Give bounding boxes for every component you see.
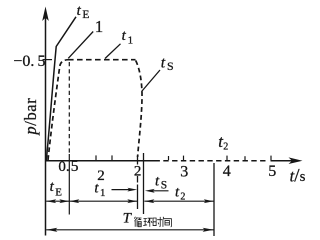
x tick 5: [270, 156, 272, 161]
solid evacuation curve tE: [46, 17, 76, 161]
svg-text:2: 2: [223, 142, 228, 153]
x tick 4: [226, 156, 228, 161]
svg-text:t: t: [161, 54, 166, 71]
extension line at t=0.5 crossing axis and solid below: [68, 154, 70, 215]
svg-text:p/bar: p/bar: [21, 98, 40, 136]
dimension t2 arrows: [144, 200, 213, 202]
svg-text:2: 2: [180, 191, 185, 202]
y-axis tick -0.5: [43, 59, 53, 61]
y-axis: [45, 12, 47, 236]
svg-text:S: S: [161, 180, 167, 192]
svg-text:−0. 5: −0. 5: [13, 53, 45, 70]
char shi: [153, 217, 162, 227]
svg-text:4: 4: [223, 163, 231, 180]
x tick 1: [95, 155, 97, 160]
extension line at t=0.5 dashed above axis: [68, 62, 70, 154]
x tick nub 4.5: [244, 156, 246, 160]
svg-text:5: 5: [71, 158, 79, 175]
leader to label 1: [68, 32, 93, 59]
svg-text:1: 1: [95, 17, 103, 36]
y-axis arrowhead: [42, 7, 49, 22]
extension line at t=2 below label: [137, 176, 139, 183]
char huan: [143, 218, 152, 227]
x tick 1.5: [111, 155, 113, 160]
leader to label t1: [105, 44, 121, 59]
svg-text:5: 5: [268, 163, 276, 180]
leader to label tS: [142, 70, 160, 92]
svg-text:E: E: [55, 186, 62, 198]
dashed curve rising edge: [48, 60, 68, 160]
char jian: [163, 217, 171, 227]
svg-text:s: s: [300, 169, 306, 185]
x tick 3: [183, 156, 185, 161]
x-axis solid part: [45, 160, 155, 162]
dimension tS left-pointing arrow: [152, 190, 169, 192]
extension line at t=2 tick through axis: [137, 156, 139, 165]
char xun: [134, 217, 141, 227]
dashed curve falling edge: [136, 61, 142, 158]
extension line right of t=2: [143, 153, 145, 214]
x-axis arrow shaft: [271, 160, 299, 162]
dimension tE arrows: [46, 200, 69, 202]
svg-text:1: 1: [100, 187, 106, 199]
svg-text:S: S: [167, 59, 174, 73]
dimension tS right-pointing arrow: [112, 189, 130, 191]
x-axis arrowhead: [289, 157, 303, 164]
chinese label xun huan shi jian (cycle time): [134, 217, 171, 227]
x-axis dashed part: [155, 160, 269, 162]
svg-text:E: E: [82, 9, 89, 21]
extension line at end of t2: [213, 163, 215, 236]
dimension t1 arrows: [69, 200, 137, 202]
svg-text:0.: 0.: [58, 159, 69, 175]
dashed curve plateau: [68, 59, 136, 61]
svg-text:2: 2: [134, 163, 142, 179]
dimension T arrows: [46, 229, 214, 231]
svg-text:1: 1: [128, 35, 134, 47]
x tick nub 2.5: [168, 156, 170, 160]
svg-text:3: 3: [180, 163, 188, 180]
